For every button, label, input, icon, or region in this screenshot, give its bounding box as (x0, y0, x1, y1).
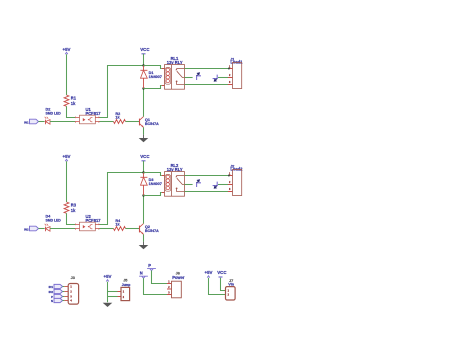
svg-text:BC547A: BC547A (145, 122, 159, 126)
svg-text:BC547A: BC547A (145, 229, 159, 233)
svg-text:IN1: IN1 (49, 285, 54, 289)
optocoupler U2 PCF817 (75, 214, 101, 231)
+5V supply symbol (link) (205, 270, 213, 277)
net tag N (51, 298, 63, 302)
transistor Q2 BC547A (140, 224, 160, 235)
svg-text:Jump: Jump (122, 283, 131, 287)
+5V supply symbol (channel 1) (63, 47, 71, 54)
svg-text:VCC: VCC (140, 47, 150, 52)
net tag P (51, 294, 62, 298)
junction top rail (142, 64, 144, 66)
optocoupler U1 PCF817 (75, 107, 101, 124)
net tag N (139, 271, 148, 279)
wire P to power pin1 (152, 271, 168, 284)
wire tag to LED D4 (39, 228, 45, 230)
ground symbol below Q1 (139, 135, 149, 143)
wire top rail to relay coil pin (144, 66, 162, 69)
wire N to power pin3 (144, 278, 168, 294)
wire R3 to opto pin1 (67, 213, 76, 224)
net arrow glyph A (197, 73, 201, 80)
header pin stub (64, 300, 68, 302)
wire collector to rail (143, 89, 145, 117)
wire relay NO to connector pin3 (185, 84, 229, 86)
wire bottom rail to relay coil pin (144, 193, 162, 196)
wire tag to header pin (63, 296, 65, 298)
wire +5V to R1 (66, 54, 68, 95)
header pin stub (64, 296, 68, 298)
svg-text:J5: J5 (123, 278, 127, 282)
wire tag to header pin (63, 300, 65, 302)
resistor R1 1k (64, 95, 77, 106)
svg-text:1k: 1k (71, 208, 76, 213)
header pin stub (64, 291, 68, 293)
svg-text:1k: 1k (71, 101, 76, 106)
net tag IN2 (49, 289, 63, 293)
resistor R4 1k (114, 219, 126, 231)
svg-text:+5V: +5V (63, 47, 71, 52)
svg-text:1N4007: 1N4007 (149, 75, 162, 79)
wire LED to opto pin2 (50, 228, 75, 230)
connector J2 Load2 (228, 164, 243, 195)
net arrow glyph A (197, 180, 201, 187)
resistor R2 1k (114, 112, 126, 124)
wire VCC down to rail junction (143, 54, 145, 66)
svg-text:Vln: Vln (228, 283, 235, 287)
svg-text:N: N (140, 271, 143, 276)
wire arrow to connector pin2 (218, 77, 228, 79)
wire LED to opto pin2 (50, 121, 75, 123)
header pin stub (64, 286, 68, 288)
wire relay NC to connector pin1 (185, 68, 229, 70)
svg-text:Power: Power (172, 275, 185, 280)
junction bottom rail (142, 194, 144, 196)
wire emitter down (143, 127, 145, 134)
wire +5V to link pin2 (209, 278, 226, 295)
VCC supply symbol (link) (217, 270, 227, 277)
+5V supply symbol (channel 2) (63, 154, 71, 161)
svg-text:VCC: VCC (140, 154, 150, 159)
relay RL1 12v RLY (162, 56, 185, 89)
resistor R3 1k (64, 202, 77, 213)
net arrow glyph B (213, 182, 218, 189)
transistor Q1 BC547A (140, 117, 160, 128)
svg-text:+5V: +5V (205, 270, 213, 275)
ground symbol (jumper) (103, 303, 113, 307)
diode D1 1N4007 flyback (140, 66, 162, 89)
ground symbol below Q2 (139, 242, 149, 250)
wire opto pin4 up to relay rail (100, 173, 144, 225)
wire opto pin4 up to relay rail (100, 66, 144, 118)
svg-text:VCC: VCC (217, 270, 227, 275)
svg-text:1N4007: 1N4007 (149, 182, 162, 186)
wire top rail to relay coil pin (144, 173, 162, 176)
net tag P (147, 263, 156, 271)
wire relay NO to connector pin3 (185, 191, 229, 193)
wire branch to jumper pin1 (108, 291, 118, 293)
wire tag to LED D2 (39, 121, 45, 123)
svg-text:J3: J3 (71, 276, 75, 280)
wire +5V to R3 (66, 161, 68, 202)
wire arrow to connector pin2 (218, 184, 228, 186)
VCC supply symbol (channel 1) (140, 47, 150, 54)
wire branch to jumper pin2 (108, 296, 118, 298)
svg-text:+5V: +5V (104, 274, 112, 279)
svg-text:IN2: IN2 (24, 227, 29, 231)
wire R1 to opto pin1 (67, 106, 76, 117)
wire +5V down (107, 282, 109, 303)
LED D4 SMD LED (45, 215, 62, 232)
wire tag to header pin (63, 286, 65, 288)
wire opto pin3 to R4 (100, 228, 114, 230)
jumper J5 body (118, 278, 131, 300)
svg-text:+5V: +5V (63, 154, 71, 159)
wire opto pin3 to R2 (100, 121, 114, 123)
wire VCC down to rail junction (143, 161, 145, 173)
wire R4 to base (126, 228, 140, 230)
wire relay common stub (185, 184, 193, 186)
wire emitter down (143, 234, 145, 241)
relay RL2 12v RLY (162, 163, 185, 196)
wire bottom rail to relay coil pin (144, 86, 162, 89)
junction top rail (142, 171, 144, 173)
wire relay NC to connector pin1 (185, 175, 229, 177)
wire R2 to base (126, 121, 140, 123)
junction bottom rail (142, 87, 144, 89)
+5V supply symbol (jumper) (104, 274, 112, 281)
connector J1 Load1 (228, 57, 243, 88)
diode D3 1N4007 flyback (140, 173, 162, 196)
net arrow glyph B (213, 75, 218, 82)
svg-text:N: N (51, 299, 53, 303)
wire tag to header pin (63, 291, 65, 293)
header J3 body (68, 276, 78, 304)
input net tag IN2 (24, 226, 38, 231)
svg-text:SMD LED: SMD LED (46, 111, 62, 115)
VCC supply symbol (channel 2) (140, 154, 150, 161)
svg-text:SMD LED: SMD LED (46, 218, 62, 222)
svg-text:IN2: IN2 (49, 290, 54, 294)
wire relay common stub (185, 77, 193, 79)
connector J6 Power (167, 272, 185, 298)
svg-text:IN1: IN1 (24, 120, 29, 124)
link header J7 body (226, 279, 236, 300)
input net tag IN1 (24, 119, 38, 124)
wire collector to rail (143, 196, 145, 224)
svg-text:P: P (148, 263, 151, 268)
net tag IN1 (49, 284, 63, 288)
LED D2 SMD LED (45, 108, 62, 125)
wire VCC to link pin1 (221, 278, 226, 291)
